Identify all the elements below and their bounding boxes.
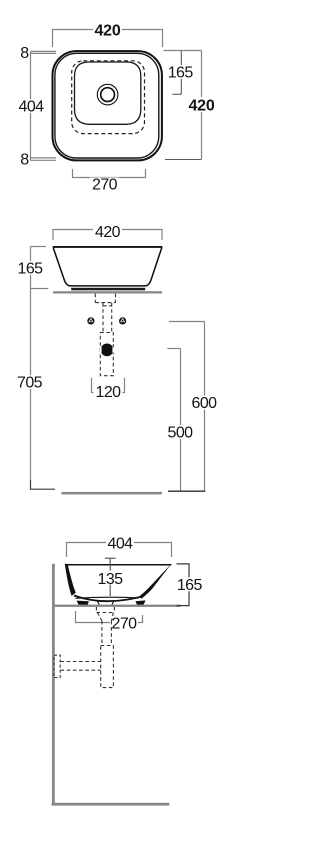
node 120 label (94, 385, 123, 399)
wire right dims (164, 51, 202, 160)
countertop side (53, 605, 181, 607)
svg-text:270: 270 (112, 615, 138, 632)
left foot (77, 601, 89, 605)
floor front (62, 492, 163, 495)
drain flange dashed side (96, 607, 114, 645)
svg-text:600: 600 (192, 395, 218, 412)
wire dim 165 right and 420 ticks (165, 51, 201, 160)
node 705 label (16, 375, 44, 389)
node 404 side label (106, 536, 134, 550)
bowl bottom edge solid (75, 62, 141, 124)
svg-text:500: 500 (168, 425, 194, 442)
node 270 side label (110, 616, 138, 630)
drain boss right line (112, 601, 114, 605)
svg-text:135: 135 (98, 571, 124, 588)
drain boss left line (97, 601, 99, 605)
wire dim 165 side (177, 564, 190, 606)
basin exterior bottom (74, 596, 142, 602)
basin side left wall (65, 564, 76, 596)
drain outer circle (97, 84, 118, 105)
svg-text:8: 8 (20, 152, 29, 169)
svg-text:165: 165 (177, 577, 203, 594)
anchor screw left (87, 317, 94, 324)
svg-text:420: 420 (188, 98, 214, 115)
basin side right wall (140, 563, 172, 599)
svg-text:165: 165 (168, 65, 194, 82)
node 420 top label (93, 22, 122, 37)
bowl interior bottom (76, 597, 140, 598)
basin side top edge (65, 564, 171, 566)
basin outer rim 420 (53, 51, 162, 160)
basin front top edge (53, 246, 163, 248)
drain inner circle (101, 88, 115, 102)
node 420 front label (93, 223, 122, 237)
svg-text:165: 165 (18, 261, 44, 278)
svg-text:705: 705 (17, 375, 43, 392)
trap body dashed front (100, 333, 113, 376)
countertop front (53, 291, 162, 293)
node 270 label (90, 178, 119, 191)
drain collar dashed (95, 294, 115, 333)
wall (52, 564, 55, 806)
node 420 right label (187, 97, 216, 112)
svg-text:404: 404 (19, 99, 45, 116)
basin inner rim 404 (55, 53, 159, 158)
svg-text:420: 420 (95, 224, 121, 241)
wire left dim column (31, 51, 57, 160)
wire dim 420 front (53, 230, 162, 241)
right foot (136, 600, 146, 604)
wall outlet box dashed (54, 655, 60, 677)
wire dim 135 (105, 558, 116, 596)
svg-text:8: 8 (20, 45, 29, 62)
svg-text:420: 420 (94, 23, 120, 40)
trap arm dashed (61, 662, 101, 671)
svg-text:120: 120 (96, 384, 122, 401)
wire 705 bottom corner (31, 480, 56, 489)
node 600 label (190, 396, 218, 410)
wire dim 270 bottom (73, 169, 146, 178)
node 500 label (166, 425, 194, 439)
svg-text:404: 404 (108, 536, 134, 553)
node 165 front label (16, 261, 44, 275)
wire dim 404 side (67, 543, 172, 558)
wire dim 270 side (76, 611, 143, 623)
wire left dims front: 165 and 705 (31, 247, 49, 481)
node 165 right label (167, 65, 195, 79)
wire dim 420 top: line + risers (53, 30, 163, 48)
wire right dims front: 600 and 500 (167, 322, 204, 492)
anchor screw right (119, 317, 126, 324)
basin front sides and bottom (53, 248, 162, 286)
bowl hidden edge dashed (72, 61, 145, 134)
wire dim 120 (92, 378, 125, 393)
node 165 side label (175, 577, 203, 591)
node 135 label (96, 571, 124, 585)
wire floor tick right (168, 490, 205, 492)
node 404 label (17, 99, 45, 113)
trap body dashed side (101, 646, 114, 688)
basin front foot (71, 288, 145, 291)
floor side (52, 803, 170, 806)
svg-text:270: 270 (92, 177, 118, 194)
waste outlet disc (101, 344, 114, 357)
